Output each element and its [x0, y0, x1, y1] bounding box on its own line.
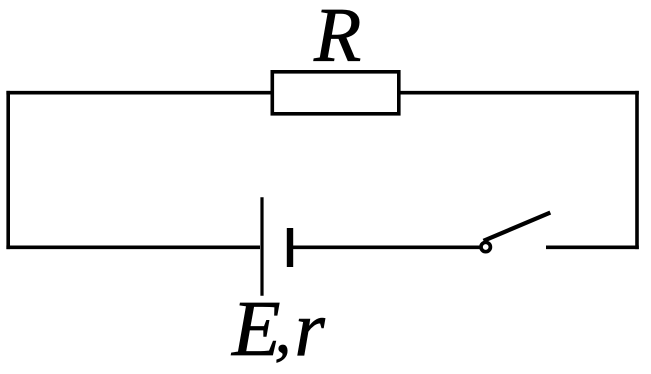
- svg-text:E: E: [231, 285, 281, 373]
- svg-text:r: r: [295, 285, 326, 372]
- svg-text:,: ,: [275, 291, 292, 367]
- svg-text:R: R: [313, 0, 361, 78]
